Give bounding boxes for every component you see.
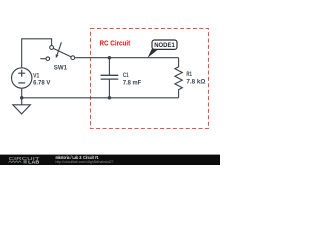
node label NODE1 callout pointer: [148, 48, 158, 58]
switch SW1 arrowhead: [56, 54, 59, 58]
wire V1 top to switch throw: [22, 39, 52, 68]
footer bar: [0, 155, 220, 165]
junction dot top (node A): [108, 56, 112, 60]
svg-text:http://circuitlab.com/c8gh5bfn: http://circuitlab.com/c8gh5bfnabskd27: [56, 159, 114, 164]
svg-text:SW1: SW1: [54, 65, 67, 72]
wire bottom rail: [22, 97, 179, 99]
svg-text:6.78 V: 6.78 V: [33, 79, 51, 86]
wire capacitor top lead: [108, 58, 110, 75]
svg-text:LAB: LAB: [28, 159, 39, 164]
node label NODE1 box: [152, 40, 177, 49]
footer logo waveform: [9, 161, 22, 163]
wire ground stub: [21, 98, 23, 105]
svg-text:NODE1: NODE1: [154, 42, 175, 49]
resistor R1: [175, 58, 182, 98]
svg-text:R1: R1: [186, 71, 192, 78]
svg-text:7.8 mF: 7.8 mF: [123, 79, 141, 86]
wire capacitor bottom lead: [108, 79, 110, 97]
footer logo LAB block: [23, 160, 26, 163]
svg-text:7.8 kΩ: 7.8 kΩ: [186, 79, 206, 86]
switch SW1: [40, 42, 74, 60]
junction dot bottom capacitor: [108, 96, 112, 100]
wire V1 bottom lead: [21, 88, 23, 97]
annotation box: RC Circuit dashed border: [91, 29, 209, 129]
junction dot bottom left: [20, 96, 24, 100]
ground: [13, 105, 31, 114]
svg-text:C1: C1: [123, 72, 129, 79]
svg-text:V1: V1: [33, 72, 39, 79]
wire switch common to top rail / node A: [75, 57, 179, 59]
svg-text:RC Circuit: RC Circuit: [100, 41, 131, 48]
voltage source V1: [12, 68, 32, 88]
capacitor C1 plates: [101, 75, 119, 79]
